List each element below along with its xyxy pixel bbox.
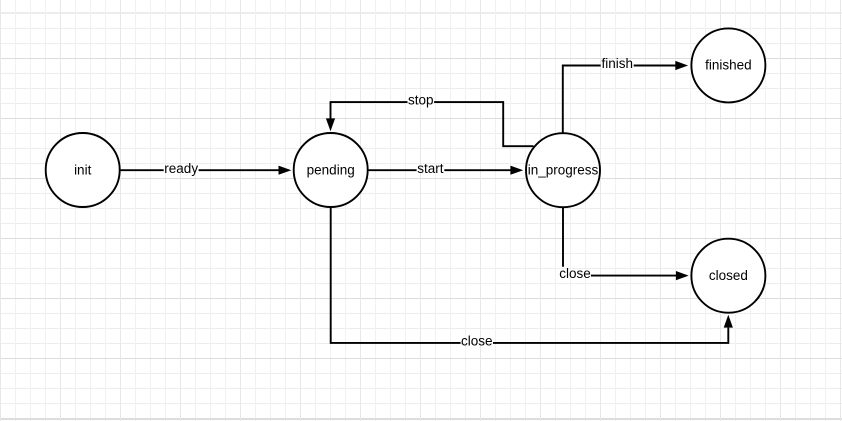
label close (in_progress to closed) bbox=[559, 266, 591, 281]
svg-text:stop: stop bbox=[408, 93, 434, 108]
svg-text:closed: closed bbox=[709, 268, 748, 283]
svg-text:start: start bbox=[417, 161, 444, 176]
wire close edge (pending to closed) bbox=[331, 207, 733, 343]
svg-text:finish: finish bbox=[601, 56, 633, 71]
wire start edge (pending to in_progress) bbox=[368, 166, 524, 175]
label stop bbox=[408, 93, 434, 108]
svg-text:finished: finished bbox=[705, 58, 752, 73]
wire ready edge (init to pending) bbox=[120, 166, 291, 175]
state pending bbox=[294, 133, 368, 207]
state init bbox=[46, 133, 120, 207]
svg-text:ready: ready bbox=[164, 161, 198, 176]
wire stop edge (in_progress to pending) bbox=[326, 102, 534, 146]
label ready bbox=[164, 161, 198, 176]
svg-text:pending: pending bbox=[307, 162, 355, 177]
svg-text:close: close bbox=[461, 334, 493, 349]
svg-text:in_progress: in_progress bbox=[528, 163, 599, 178]
label close (pending to closed) bbox=[461, 334, 493, 349]
svg-text:init: init bbox=[74, 162, 92, 177]
label finish bbox=[601, 56, 633, 71]
wire finish edge (in_progress to finished) bbox=[563, 61, 688, 135]
wire close edge (in_progress to closed) bbox=[563, 207, 689, 281]
state closed bbox=[691, 239, 765, 313]
state finished bbox=[691, 28, 765, 102]
svg-text:close: close bbox=[559, 266, 591, 281]
state in_progress bbox=[526, 133, 600, 207]
label start bbox=[417, 161, 444, 176]
